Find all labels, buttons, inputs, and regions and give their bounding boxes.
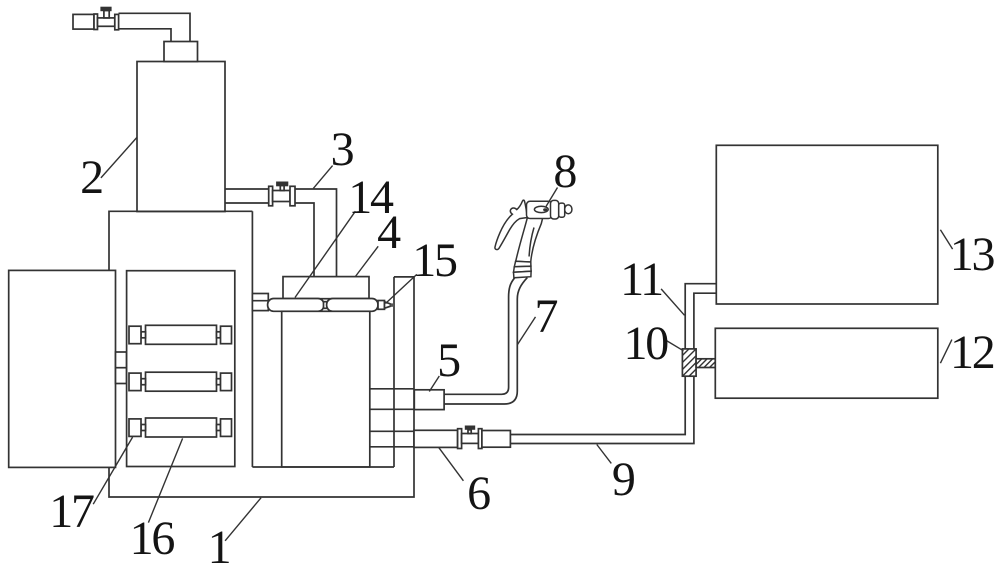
main housing box 1 outline (109, 211, 414, 497)
valve V3 body (462, 434, 479, 444)
svg-text:10: 10 (623, 317, 668, 370)
port shelf lines between tank 4 and right wall (370, 389, 414, 447)
valve V2 stem (280, 186, 284, 191)
leader line 14 (295, 211, 355, 297)
valve V3 left flange (458, 429, 462, 449)
gun barrel (527, 201, 553, 218)
valve V3 stem (468, 430, 471, 434)
gun sight oval (534, 206, 548, 212)
svg-text:15: 15 (412, 234, 457, 287)
cylinder 15 (327, 299, 378, 312)
leader line 4 (355, 246, 378, 276)
leader line 7 (517, 317, 535, 345)
main housing inner column line (251, 211, 253, 467)
elbow pipe from neck to top-left valve (119, 13, 191, 41)
valve V2 body (273, 191, 290, 202)
connector 10 hatched block (682, 349, 696, 376)
leader line 12 (940, 340, 952, 364)
tank 4 body (282, 311, 370, 467)
cylinder 14 connector tabs (252, 294, 268, 311)
valve V1 stem (104, 11, 109, 18)
leader line 8 (546, 188, 558, 207)
svg-text:16: 16 (130, 512, 175, 565)
svg-text:6: 6 (467, 467, 490, 520)
svg-text:9: 9 (612, 453, 635, 506)
leader line 6 (439, 447, 464, 480)
valve V1 right flange (115, 14, 119, 29)
svg-text:7: 7 (534, 290, 557, 343)
main housing inner right wall (393, 277, 395, 467)
gun nozzle tip (565, 205, 572, 214)
outlet port 6 (414, 430, 458, 447)
pipe 3 elbow down to filter 4 (295, 189, 337, 277)
svg-text:5: 5 (437, 334, 460, 387)
connector 10 hatched bar to box 12 (696, 359, 715, 368)
leader line 5 (429, 376, 439, 392)
gun trigger lever (495, 200, 528, 249)
roller box (16/17 container) (127, 271, 235, 467)
roller row 3 (129, 418, 232, 437)
valve V1 body (98, 18, 115, 26)
top-left fitting box (73, 14, 94, 29)
gun barrel ring (551, 200, 559, 219)
pipe 9 to connector 10 (510, 376, 694, 443)
wall tabs between left box and roller box (116, 352, 127, 384)
stem between cylinders 14 and 15 (324, 302, 329, 309)
valve V3 right flange (478, 429, 482, 449)
roller row 1 (129, 325, 232, 344)
leader line 3 (313, 166, 332, 189)
hose from port 5 to spray gun 8 (444, 278, 514, 394)
pipe 3 from tank 2 to valve (225, 189, 269, 203)
svg-text:14: 14 (348, 171, 394, 224)
valve V1 left flange (94, 14, 98, 30)
leader line 9 (597, 445, 612, 464)
spray gun 8 (495, 200, 572, 278)
svg-text:1: 1 (208, 521, 230, 570)
svg-text:3: 3 (331, 123, 354, 176)
svg-text:2: 2 (80, 151, 102, 204)
leader line 15 (386, 274, 417, 303)
pipe 11 from connector 10 to box 13 (685, 284, 716, 349)
svg-text:11: 11 (620, 253, 662, 306)
valve V2 right flange (290, 186, 295, 206)
leader line 2 (101, 138, 137, 178)
roller row 2 (129, 372, 232, 391)
leader line 13 (940, 230, 952, 249)
pipe fitting after valve V3 (482, 431, 511, 448)
valve V2 left flange (269, 186, 273, 206)
main housing inner bottom edge (252, 466, 394, 468)
gun grip (516, 218, 543, 262)
leader line 1 (225, 498, 261, 541)
svg-text:17: 17 (49, 485, 94, 538)
leader line 11 (661, 289, 684, 315)
leader line 10 (666, 341, 683, 351)
svg-text:8: 8 (553, 145, 576, 198)
left side box (9, 270, 116, 467)
leader line 17 (93, 437, 132, 504)
tank 2 (vertical cylinder body) (137, 62, 225, 212)
leader line 16 (148, 438, 182, 522)
gun nozzle holder (559, 203, 565, 217)
svg-text:12: 12 (950, 326, 994, 379)
gun collar bands (514, 261, 531, 267)
nozzle of cylinder 15 (378, 301, 385, 310)
valve V2 handle (276, 182, 288, 187)
box 13 (716, 145, 938, 304)
svg-text:13: 13 (950, 228, 995, 281)
filter 4 top box (283, 277, 369, 299)
cylinder 14 (268, 299, 324, 312)
outlet port 5 (414, 390, 444, 410)
valve V1 handle (100, 7, 111, 12)
box 12 (715, 328, 938, 398)
valve V3 handle (465, 426, 475, 430)
tank 2 neck (164, 42, 198, 62)
